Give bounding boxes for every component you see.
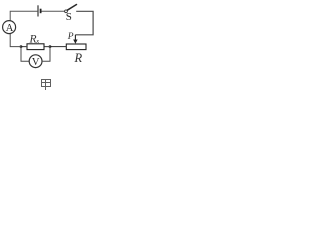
svg-text:R: R [74,51,83,65]
wire resistor Rx to junction A [21,46,27,48]
junction dot A [20,45,23,48]
battery short plate [40,9,42,14]
wire junction B to resistor Rx [44,46,50,48]
switch S lever [67,5,76,11]
label P [67,32,74,42]
wire switch to top-right corner and down [75,11,93,35]
label 甲 [42,80,51,91]
svg-text:V: V [32,57,40,68]
voltmeter V [29,55,42,68]
label Rx [29,33,40,45]
svg-text:P: P [67,32,74,42]
wire top-left (corner to battery) [10,11,37,20]
voltmeter branch right wire [42,47,50,62]
battery long plate [37,5,39,16]
svg-text:S: S [66,11,72,23]
svg-text:A: A [6,23,14,34]
ammeter A [3,21,16,34]
slider P arrow [73,35,77,44]
svg-text:x: x [35,38,39,45]
resistor Rx box [27,44,44,50]
rheostat R box [66,44,86,50]
junction dot B [49,45,52,48]
switch S contact circle [65,10,68,13]
wire rheostat to junction B [50,46,66,48]
label S [66,11,72,23]
wire junction A to ammeter corner [10,34,21,47]
label R [74,51,83,65]
wire battery to switch [42,10,65,12]
voltmeter branch left wire [21,47,29,62]
